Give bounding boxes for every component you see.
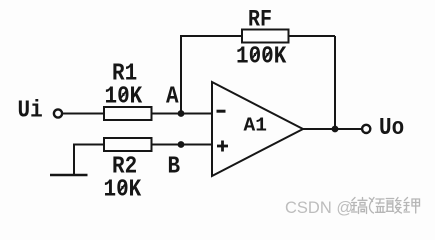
char meng xyxy=(369,198,385,214)
char jia xyxy=(404,198,420,214)
wire op-amp output xyxy=(303,128,362,130)
svg-text:Ui: Ui xyxy=(18,96,43,124)
svg-text:100K: 100K xyxy=(236,42,287,70)
svg-text:RF: RF xyxy=(248,7,272,33)
node A xyxy=(178,110,185,117)
node B xyxy=(178,141,185,148)
svg-text:A1: A1 xyxy=(244,115,267,137)
op-amp plus sign xyxy=(217,141,228,152)
slashed zero mark (R1 10K) xyxy=(120,90,128,100)
resistor RF xyxy=(242,30,289,43)
char gao xyxy=(352,198,368,214)
wire feedback left vertical xyxy=(180,36,182,114)
wire R1 to op-amp minus input xyxy=(152,113,213,115)
resistor R1 xyxy=(104,107,152,120)
char suan xyxy=(386,198,401,214)
wire feedback right vertical xyxy=(334,36,336,129)
svg-text:10K: 10K xyxy=(105,82,143,110)
op-amp minus sign xyxy=(217,110,226,113)
slashed zero marks (RF 100K) xyxy=(251,50,259,60)
wire R2 to op-amp plus input xyxy=(152,144,213,146)
terminal Vi xyxy=(54,109,62,117)
wire feedback top horizontal xyxy=(180,35,335,37)
svg-text:A: A xyxy=(166,82,179,110)
resistor R2 xyxy=(104,138,152,151)
svg-text:Uo: Uo xyxy=(379,114,404,142)
wire R2 left to ground corner xyxy=(74,144,104,146)
output node xyxy=(332,126,339,133)
ground wire vertical xyxy=(73,144,75,176)
svg-text:CSDN @: CSDN @ xyxy=(285,199,353,217)
svg-text:B: B xyxy=(168,152,181,180)
op-amp A1 xyxy=(212,82,303,176)
svg-text:10K: 10K xyxy=(104,175,142,203)
ground xyxy=(50,174,88,176)
watermark chinese characters xyxy=(352,198,420,214)
wire Vi to R1 xyxy=(63,113,105,115)
terminal Vo xyxy=(362,125,370,133)
slashed zero mark (R2 10K) xyxy=(119,183,127,193)
